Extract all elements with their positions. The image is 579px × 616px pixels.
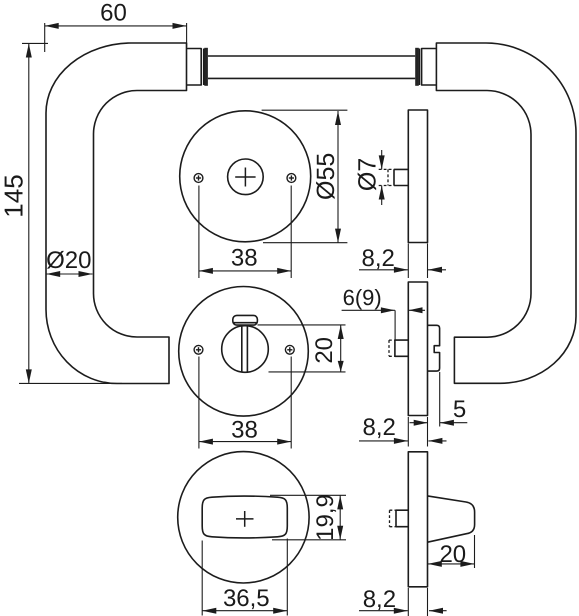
dim D7 lines (381, 150, 383, 169)
rosette 2 screw left (194, 345, 203, 354)
dim 145 lines (28, 44, 30, 384)
arrows dim 60 (45, 23, 59, 29)
rosette 3 center cross (236, 511, 254, 527)
rosette 1 screw right (287, 174, 296, 183)
arrows dim 8,2 row3 (394, 608, 408, 614)
arrows dim 20 knob3 (428, 561, 442, 567)
rosette 2 outer circle (179, 287, 309, 417)
rosette 2 thumbturn cap (233, 315, 258, 325)
svg-text:38: 38 (231, 416, 258, 443)
dim 38 rosette1 lines (199, 270, 291, 272)
dim D20 line (46, 273, 92, 275)
arrows dim 8,2 row1 (394, 267, 408, 273)
side view release knob 3 (trapezoid) (428, 496, 475, 542)
dim 6(9) lines (342, 309, 395, 311)
rosette 3 emergency-release pillow plate (202, 496, 287, 538)
svg-text:8,2: 8,2 (363, 586, 396, 613)
rosette 1 center hole (228, 159, 264, 195)
rosette 3 outer circle (178, 452, 309, 583)
arrows dim 5 (414, 420, 428, 426)
dim D55 lines (337, 111, 339, 243)
collar right handle (422, 49, 437, 86)
dim 60 lines (45, 25, 187, 27)
side view stub 2 hidden dashes (389, 340, 395, 356)
collar left handle (187, 49, 202, 86)
svg-text:20: 20 (311, 337, 338, 364)
side view plate 3 (408, 452, 427, 587)
dim 19,9 lines (339, 495, 341, 539)
arrows dim 38 rosette1 (199, 268, 213, 274)
arrows dim D20 (46, 271, 60, 277)
dim 36,5 lines (202, 610, 287, 612)
rosette 1 screw left (194, 174, 203, 183)
dim 8,2 row2 lines (359, 440, 408, 442)
svg-text:Ø20: Ø20 (46, 247, 91, 274)
side view plate 1 (408, 110, 427, 243)
ring left (203, 49, 205, 86)
arrows dim 6(9) (381, 307, 395, 313)
rosette 2 screw right (285, 345, 294, 354)
arrows dim 20 rosette2 (338, 325, 344, 339)
svg-text:36,5: 36,5 (223, 585, 270, 612)
svg-text:19,9: 19,9 (312, 494, 339, 541)
side view stub 1 hidden dashes (379, 169, 394, 185)
lever handle right (front view) (436, 43, 576, 383)
rosette 1 center cross (235, 168, 255, 187)
svg-text:8,2: 8,2 (362, 245, 395, 272)
svg-text:Ø55: Ø55 (312, 153, 340, 200)
dim 8,2 row1 lines (359, 269, 408, 271)
arrows dim 38 rosette2 (199, 439, 213, 445)
rosette 1 outer circle (180, 111, 311, 242)
svg-text:Ø7: Ø7 (353, 158, 381, 191)
side view stub 3 hidden dashes (390, 510, 397, 527)
dim 38 rosette2 lines (199, 441, 291, 443)
arrows dim 145 (26, 44, 32, 58)
svg-text:20: 20 (439, 541, 466, 568)
rosette 2 center hole (222, 326, 269, 373)
side view plate 2 (408, 282, 427, 416)
side view stub 1 (394, 169, 408, 185)
dim 20 knob3 lines (428, 563, 475, 565)
lever handle left (front view) (46, 43, 187, 384)
svg-text:38: 38 (231, 245, 258, 272)
dim 20 rosette2 lines (340, 325, 342, 372)
svg-text:145: 145 (0, 174, 29, 217)
ring right (418, 49, 420, 86)
svg-text:6(9): 6(9) (343, 285, 382, 310)
arrows dim D7 (379, 155, 385, 169)
dim 5 lines (410, 422, 428, 424)
bevel ring right (dark) (415, 48, 419, 86)
side view stub 3 (396, 510, 408, 527)
arrows dim D55 (335, 111, 341, 125)
side view stub 2 (395, 340, 408, 356)
arrows dim 36,5 (202, 608, 216, 614)
spindle (208, 55, 415, 57)
dim 8,2 row3 lines (359, 610, 408, 612)
svg-text:60: 60 (100, 0, 127, 27)
arrows dim 8,2 row2 (394, 438, 408, 444)
arrows dim 19,9 (337, 495, 343, 509)
svg-text:5: 5 (453, 396, 466, 423)
bevel ring left (dark) (204, 48, 208, 86)
rosette 2 thumbturn bar (241, 325, 243, 372)
side view thumbturn knob 2 (428, 325, 440, 371)
svg-text:8,2: 8,2 (363, 414, 396, 441)
